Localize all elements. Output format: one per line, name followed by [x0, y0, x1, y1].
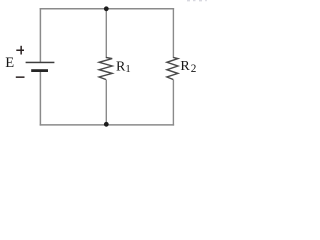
- wire: right branch upper segment (R2 top lead): [172, 8, 174, 58]
- wire: left branch lower segment (battery - lead): [39, 72, 41, 126]
- label R2: [180, 59, 196, 75]
- junction dot: bottom node b: [104, 122, 109, 127]
- label R1: [116, 59, 131, 74]
- wire: middle branch upper segment (R1 top lead): [105, 9, 107, 58]
- svg-text:R: R: [180, 59, 190, 74]
- junction dot: top node a: [104, 6, 109, 11]
- wire: bottom rail (node b): [40, 124, 174, 126]
- svg-text:E: E: [5, 55, 14, 71]
- label + polarity: [16, 46, 24, 55]
- wire: top rail (node a): [40, 8, 174, 10]
- svg-text:1: 1: [125, 63, 130, 75]
- label - polarity: [16, 76, 25, 78]
- battery E (voltage source plates): [26, 62, 55, 72]
- svg-text:2: 2: [191, 63, 197, 75]
- wire: right branch lower segment (R2 bottom lead): [172, 80, 174, 126]
- wire: left branch upper segment (battery + lead): [39, 8, 41, 62]
- resistor R1 (zigzag): [99, 57, 112, 79]
- wire: middle branch lower segment (R1 bottom lead): [105, 80, 107, 125]
- resistor R2 (zigzag): [167, 57, 178, 79]
